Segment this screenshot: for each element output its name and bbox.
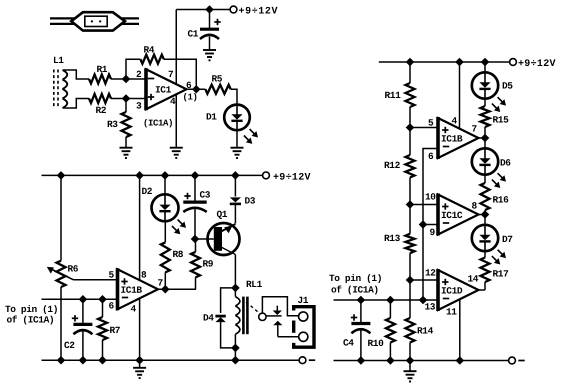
svg-text:R17: R17 (492, 269, 509, 280)
op-amp U IC1C triangle (438, 195, 479, 235)
svg-text:R16: R16 (492, 195, 509, 206)
svg-text:R4: R4 (143, 45, 154, 56)
op-amp U IC1B (window comparator) triangle (438, 118, 479, 158)
junction pin4 bottom with ground (135, 356, 144, 365)
svg-text:6: 6 (428, 151, 434, 162)
reference chain wire pins 6-9-13 (423, 149, 438, 301)
0V terminal circuit2 (299, 357, 306, 364)
svg-text:9: 9 (429, 227, 435, 238)
svg-text:L1: L1 (53, 55, 64, 66)
top rail circuit1 (176, 9, 231, 11)
connector J1 outline (294, 307, 314, 348)
resistor R13 (409, 205, 411, 234)
svg-text:6: 6 (108, 301, 114, 312)
svg-text:7: 7 (157, 278, 163, 289)
svg-text:11: 11 (446, 307, 457, 318)
resistor R15 (481, 106, 490, 127)
relay fixed contact lower (arrow up) (273, 321, 282, 326)
resistor R7 (102, 299, 104, 317)
ground under pin4 (170, 148, 183, 158)
R6 wiper arrow (52, 270, 74, 280)
ladder node pin10 (406, 200, 415, 209)
svg-text:IC1: IC1 (155, 85, 172, 96)
op-amp U IC1B (relay driver) triangle (118, 269, 159, 309)
output junction IC1C (481, 210, 490, 219)
wire pin4 to rail (459, 62, 461, 129)
svg-text:5: 5 (108, 270, 114, 281)
wire pin10 (410, 204, 438, 206)
C3 plus sign (184, 193, 190, 199)
junction ladder top (406, 58, 415, 67)
resistor R4 (140, 55, 163, 64)
wire pin4 to ground (175, 95, 177, 148)
supply terminal +9-12V circuit1 (230, 6, 237, 13)
bottom rail circuit3 (334, 360, 509, 362)
minus sign pin9 (443, 222, 449, 224)
ground circuit3 (409, 361, 411, 372)
junction C1 on rail (205, 5, 214, 14)
wire R5 to D1 (231, 89, 237, 105)
LED D6 (484, 138, 486, 148)
junction pin4 rail (455, 58, 464, 67)
J1 terminal bottom (299, 332, 308, 341)
junction D5 rail (481, 58, 490, 67)
svg-text:7: 7 (471, 124, 477, 135)
wire L1 top to R1 (63, 70, 90, 79)
svg-text:R12: R12 (384, 160, 401, 171)
resistor R1 (89, 75, 111, 84)
diode D4 flyback (221, 288, 236, 313)
minus sign pin6 right (443, 146, 449, 148)
resistor R3 (125, 99, 127, 113)
plus sign pin12 (442, 279, 448, 285)
feedback wire R4 left (126, 59, 140, 79)
supply terminal +9-12V circuit3 (510, 59, 517, 66)
capacitor C1 electrolytic (209, 10, 211, 29)
resistor R12 (409, 128, 411, 156)
signal line to pin(1) of IC1A (334, 299, 439, 301)
op-amp U IC1D triangle (438, 270, 479, 310)
plus sign pin10 (442, 203, 448, 209)
wire output pin8 (479, 214, 486, 216)
capacitor C3 electrolytic (194, 175, 196, 201)
op-amp U IC1 (IC1A) triangle (146, 69, 187, 109)
svg-text:of (IC1A): of (IC1A) (331, 285, 379, 296)
relay fixed contact upper (arrow down) (276, 306, 278, 311)
junction ref line signal (419, 296, 428, 305)
svg-text:14: 14 (467, 274, 478, 285)
wire pin8 to rail (139, 175, 141, 280)
wire relay to bottom rail (234, 348, 236, 360)
junction R7 bottom (98, 356, 107, 365)
relay RL1 coil (234, 288, 236, 297)
LED D5 (484, 62, 486, 72)
supply terminal +9-12V circuit2 (263, 172, 270, 179)
junction pin9 tap (419, 220, 428, 229)
svg-text:R11: R11 (384, 90, 401, 101)
svg-text:2: 2 (136, 69, 142, 80)
svg-text:C1: C1 (187, 29, 198, 40)
svg-text:D2: D2 (141, 186, 152, 197)
svg-text:4: 4 (170, 96, 176, 107)
wire L1 bottom to R2 (63, 99, 90, 109)
ladder node pin5 (406, 123, 415, 132)
junction pin11 bottom (456, 356, 465, 365)
svg-text:7: 7 (168, 69, 174, 80)
minus sign pin13 (443, 298, 449, 300)
junction C4 signal (357, 296, 366, 305)
bottom rail circuit2 (42, 359, 300, 361)
node B junction (pin3) (122, 94, 131, 103)
diode D3 (234, 175, 236, 196)
svg-text:D7: D7 (502, 234, 513, 245)
ground circuit2 (139, 360, 141, 368)
capacitor C4 electrolytic (360, 300, 362, 322)
top rail circuit3 (379, 61, 510, 63)
svg-text:C2: C2 (64, 340, 75, 351)
junction C4 bottom (357, 356, 366, 365)
svg-text:R10: R10 (367, 338, 384, 349)
wire pin5 right circuit (410, 127, 438, 129)
wire output pin7 right (479, 137, 486, 139)
wire D1 to ground (236, 130, 238, 148)
wire pin11 to bottom rail (459, 299, 461, 360)
relay moving arm (266, 315, 281, 317)
LED D1 (224, 105, 250, 131)
svg-text:R1: R1 (96, 64, 107, 75)
svg-text:R13: R13 (384, 233, 401, 244)
resistor R2 (89, 94, 111, 103)
resistor R17 (481, 258, 490, 283)
resistor R14 (409, 280, 411, 318)
svg-text:+9÷12V: +9÷12V (238, 7, 278, 18)
op-amp minus sign pin2 (148, 78, 154, 80)
relay RL1 core bars (242, 297, 245, 335)
wire Q1 emitter down to relay (234, 255, 236, 288)
junction R14 bottom with ground (406, 356, 415, 365)
svg-text:+9÷12V: +9÷12V (273, 173, 311, 184)
svg-text:D4: D4 (203, 313, 214, 324)
svg-text:IC1B: IC1B (441, 134, 463, 145)
svg-text:4: 4 (451, 116, 457, 127)
resistor R10 (389, 300, 391, 318)
trimmer R6 body (60, 175, 62, 260)
resistor R8 (161, 242, 170, 272)
wire D5 to R15 (484, 99, 486, 106)
svg-text:+9÷12V: +9÷12V (518, 59, 556, 70)
minus label circuit3 (518, 360, 524, 362)
resistor R9 (191, 252, 200, 277)
wire D6 to R16 (484, 175, 486, 183)
wire output pin14 to R17 (479, 289, 486, 291)
J1 terminal top (299, 312, 308, 321)
relay actuation dashed link (246, 302, 258, 312)
svg-text:4: 4 (130, 304, 136, 315)
svg-text:13: 13 (424, 302, 435, 313)
svg-text:of (IC1A): of (IC1A) (6, 315, 54, 326)
output junction IC1B right (481, 134, 490, 143)
svg-text:RL1: RL1 (246, 279, 263, 290)
wire output pin6 (188, 88, 206, 90)
junction C3 top (191, 171, 200, 180)
ground under D1 (231, 148, 244, 158)
svg-text:C3: C3 (199, 190, 210, 201)
junction C2 bottom (79, 356, 88, 365)
node A junction (pin2) (122, 75, 131, 84)
C4 plus sign (351, 314, 357, 320)
wire common to J1 top (262, 297, 298, 316)
svg-text:R7: R7 (109, 325, 120, 336)
svg-text:10: 10 (425, 192, 436, 203)
svg-text:R14: R14 (417, 326, 434, 337)
wire to pin(1) of IC1A (signal input) (42, 298, 118, 300)
base node junction (191, 235, 200, 244)
resistor R11 (409, 62, 411, 83)
output junction circuit2 (161, 285, 170, 294)
resistor R16 (481, 183, 490, 210)
svg-text:R8: R8 (172, 249, 183, 260)
svg-text:IC1C: IC1C (441, 210, 463, 221)
minus sign pin6 (122, 297, 128, 299)
svg-text:To pin (1): To pin (1) (5, 304, 58, 315)
svg-text:R5: R5 (211, 74, 222, 85)
wire NO contact to J1 bottom (278, 336, 299, 338)
svg-text:(IC1A): (IC1A) (143, 119, 173, 129)
svg-text:J1: J1 (297, 295, 308, 306)
svg-text:D3: D3 (244, 196, 255, 207)
resistor R5 (205, 85, 230, 94)
junction R6 bottom (57, 356, 66, 365)
junction R10 signal (386, 296, 395, 305)
sensor probe (in-line cable sensor) (50, 12, 139, 30)
junction C2 top (79, 295, 88, 304)
svg-text:To pin (1): To pin (1) (329, 273, 382, 284)
svg-text:8: 8 (141, 270, 147, 281)
relay top node junction (231, 284, 240, 293)
ladder node pin12 (406, 276, 415, 285)
svg-text:R15: R15 (492, 115, 509, 126)
svg-text:8: 8 (471, 201, 477, 212)
wire D7 to R17 (484, 251, 486, 257)
L1 core (dashed) (54, 70, 58, 108)
svg-text:R2: R2 (95, 105, 106, 116)
svg-text:C4: C4 (343, 338, 354, 349)
junction D2 top (161, 171, 170, 180)
junction pin8 top (135, 171, 144, 180)
relay bottom node junction (231, 344, 240, 353)
svg-text:D1: D1 (206, 112, 217, 123)
wire R2 to node B (111, 98, 146, 100)
LED D7 (484, 215, 486, 225)
C1 plus sign (214, 19, 220, 25)
svg-text:R6: R6 (67, 264, 78, 275)
ground under C1 (203, 50, 216, 60)
wire output pin7 (158, 288, 196, 290)
feedback wire R4 right to output (164, 59, 196, 89)
junction R7 top (98, 295, 107, 304)
plus sign pin5 (121, 278, 127, 284)
ground under R3 (120, 148, 133, 158)
svg-text:3: 3 (136, 101, 142, 112)
svg-text:5: 5 (428, 118, 434, 129)
junction R10 bottom (386, 356, 395, 365)
svg-text:D6: D6 (500, 158, 511, 169)
junction R6 top (57, 171, 66, 180)
wire D2 to R8 (164, 221, 166, 242)
wire pin7 to +V rail (175, 10, 177, 85)
minus label circuit2 (309, 359, 315, 361)
svg-text:12: 12 (425, 268, 436, 279)
op-amp plus sign pin3 (148, 94, 154, 100)
junction relay on bottom rail (231, 356, 240, 365)
svg-text:Q1: Q1 (216, 209, 227, 220)
wire pin9 (423, 224, 438, 226)
wire pin4 to bottom rail (139, 298, 141, 360)
svg-text:IC1D: IC1D (441, 286, 463, 297)
junction D3 top (231, 171, 240, 180)
wire wiper to pin5 (74, 279, 118, 281)
top rail circuit2 (42, 174, 263, 176)
svg-text:R3: R3 (107, 119, 118, 130)
0V terminal circuit3 (509, 357, 516, 364)
plus sign pin5 right (442, 127, 448, 133)
C2 plus sign (72, 315, 78, 321)
transistor Q1 (208, 223, 240, 255)
LED D2 (164, 175, 166, 194)
wire pin12 (410, 279, 438, 281)
relay common contact (259, 313, 266, 320)
svg-text:R9: R9 (202, 259, 213, 270)
wire R1 to node A (111, 78, 146, 80)
output node junction (192, 85, 201, 94)
svg-text:IC1B: IC1B (120, 285, 142, 296)
svg-text:D5: D5 (502, 81, 513, 92)
capacitor C2 electrolytic (82, 299, 84, 323)
inductor L1 pickup coil (63, 70, 68, 108)
svg-text:(1): (1) (182, 93, 197, 103)
